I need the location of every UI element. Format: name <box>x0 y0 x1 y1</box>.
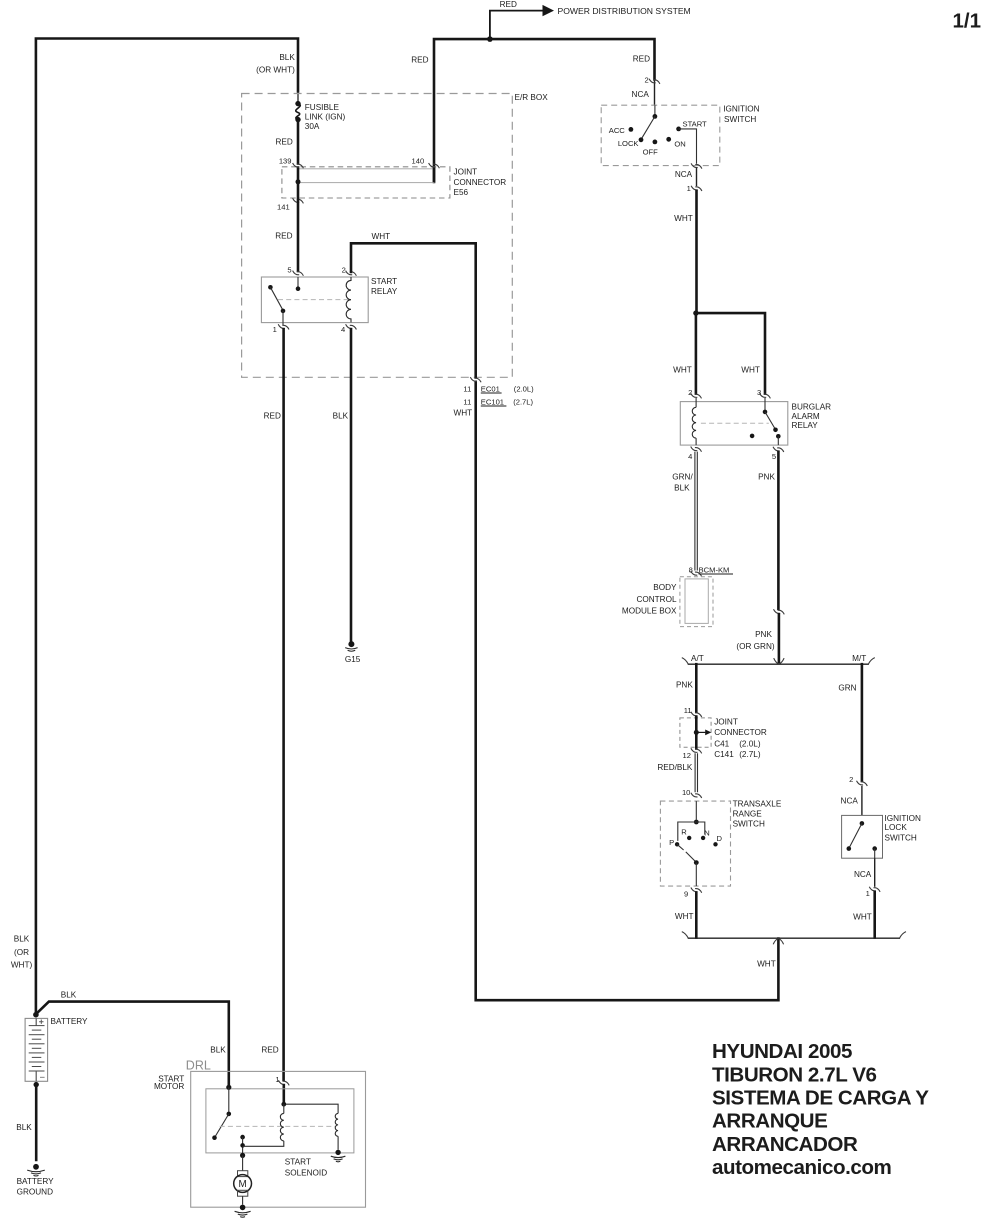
svg-text:RED: RED <box>264 412 281 421</box>
svg-text:FUSIBLE: FUSIBLE <box>305 103 340 112</box>
svg-text:MOTOR: MOTOR <box>154 1082 184 1091</box>
svg-text:5: 5 <box>287 266 291 275</box>
svg-text:JOINT: JOINT <box>714 717 738 726</box>
svg-text:1: 1 <box>273 325 277 334</box>
svg-text:NCA: NCA <box>632 90 650 99</box>
svg-text:D: D <box>716 834 722 843</box>
svg-text:MODULE BOX: MODULE BOX <box>622 606 677 615</box>
ignition lock switch <box>842 814 921 858</box>
svg-text:WHT: WHT <box>371 232 390 241</box>
svg-text:BATTERY: BATTERY <box>51 1017 89 1026</box>
svg-text:PNK: PNK <box>755 630 772 639</box>
bottom WHT junction line <box>682 932 906 945</box>
svg-text:A/T: A/T <box>691 654 704 663</box>
title text block <box>712 1040 929 1179</box>
svg-text:NCA: NCA <box>854 870 872 879</box>
wire RED start relay pin 1 down to start motor pin 1 <box>261 329 283 1080</box>
burglar relay pin 3 connector <box>757 388 770 399</box>
svg-text:RED: RED <box>633 55 650 64</box>
burglar alarm relay <box>680 402 831 446</box>
svg-text:E56: E56 <box>454 188 469 197</box>
burglar relay pin 2 connector <box>688 388 701 399</box>
svg-text:RED: RED <box>500 0 517 9</box>
svg-text:9: 9 <box>684 889 688 898</box>
svg-text:11: 11 <box>463 384 471 393</box>
svg-text:SWITCH: SWITCH <box>733 819 765 828</box>
start motor pin 1 connector (RED feed) <box>275 1075 289 1102</box>
svg-text:(OR GRN): (OR GRN) <box>736 642 774 651</box>
svg-text:(OR: (OR <box>14 948 29 957</box>
wire WHT start relay pin 2 across and down through EC01/EC101 to bottom junction <box>351 232 778 1000</box>
ignition lock switch pin 1 <box>853 858 880 937</box>
svg-text:140: 140 <box>412 156 425 165</box>
svg-text:SISTEMA DE CARGA Y: SISTEMA DE CARGA Y <box>712 1087 929 1110</box>
svg-text:M/T: M/T <box>852 654 866 663</box>
svg-text:SOLENOID: SOLENOID <box>285 1169 327 1178</box>
body control module box <box>622 577 713 627</box>
svg-text:HYUNDAI 2005: HYUNDAI 2005 <box>712 1040 852 1063</box>
svg-text:START: START <box>371 277 397 286</box>
transaxle range switch <box>660 800 781 887</box>
start relay coil <box>346 277 351 322</box>
battery <box>25 1012 88 1087</box>
svg-text:G15: G15 <box>345 655 361 664</box>
svg-text:PNK: PNK <box>758 472 775 481</box>
svg-text:CONNECTOR: CONNECTOR <box>714 728 767 737</box>
pin 141 connector <box>293 198 304 203</box>
start relay switch contacts <box>268 277 349 325</box>
svg-text:RED: RED <box>261 1045 278 1054</box>
svg-text:RED: RED <box>276 138 293 147</box>
svg-text:WHT: WHT <box>675 912 694 921</box>
svg-text:WHT: WHT <box>853 912 872 921</box>
svg-text:BLK: BLK <box>210 1045 226 1054</box>
transaxle range switch contacts P R N D <box>669 801 722 886</box>
svg-text:(2.7L): (2.7L) <box>739 750 761 759</box>
svg-text:EC101: EC101 <box>481 397 504 406</box>
svg-text:C141: C141 <box>714 750 734 759</box>
svg-text:P: P <box>669 838 674 847</box>
pin 5 connector <box>293 271 304 276</box>
burglar relay pin 5 connector <box>772 447 784 461</box>
svg-text:LINK (IGN): LINK (IGN) <box>305 113 346 122</box>
svg-text:WHT: WHT <box>673 366 692 375</box>
A/T M/T option split line <box>682 654 875 664</box>
node: WHT junction above burglar alarm relay <box>693 310 698 315</box>
svg-text:141: 141 <box>277 203 290 212</box>
svg-text:PNK: PNK <box>676 680 693 689</box>
start solenoid ground <box>331 1150 346 1162</box>
wire GRN M/T branch down to ignition lock switch pin 2 <box>838 664 862 780</box>
svg-text:RANGE: RANGE <box>733 809 763 818</box>
svg-text:CONTROL: CONTROL <box>636 595 676 604</box>
svg-text:BURGLAR: BURGLAR <box>792 403 832 412</box>
pin 140 connector <box>429 163 440 168</box>
svg-text:WHT: WHT <box>741 366 760 375</box>
svg-text:RELAY: RELAY <box>792 421 819 430</box>
svg-text:automecanico.com: automecanico.com <box>712 1156 891 1179</box>
svg-text:LOCK: LOCK <box>885 823 908 832</box>
transaxle range switch pin 9 <box>684 888 702 899</box>
svg-text:(OR WHT): (OR WHT) <box>256 66 295 75</box>
svg-text:EC01: EC01 <box>481 384 500 393</box>
wire RED from joint connector pin 140 up, across, down to ignition switch pin 2 <box>411 39 654 182</box>
svg-text:BLK: BLK <box>16 1123 32 1132</box>
battery ground <box>17 1164 55 1197</box>
svg-text:(2.0L): (2.0L) <box>739 739 761 748</box>
svg-text:139: 139 <box>279 156 292 165</box>
wire RED stub to power distribution arrow <box>490 0 543 39</box>
motor ground <box>235 1205 251 1218</box>
svg-text:ON: ON <box>674 140 685 149</box>
arrow to POWER DISTRIBUTION SYSTEM <box>543 5 691 16</box>
motor M <box>234 1155 252 1204</box>
svg-text:RED/BLK: RED/BLK <box>657 763 693 772</box>
svg-text:1/1: 1/1 <box>953 10 982 33</box>
svg-text:BLK: BLK <box>333 412 349 421</box>
svg-text:WHT: WHT <box>757 960 776 969</box>
svg-text:4: 4 <box>688 452 692 461</box>
svg-text:1: 1 <box>866 889 870 898</box>
svg-text:GRN/: GRN/ <box>672 472 693 481</box>
pin 4 connector <box>346 324 357 329</box>
svg-text:GRN: GRN <box>838 683 856 692</box>
start solenoid inner box <box>206 1089 354 1153</box>
wire BLK start relay pin 4 down to ground G15 <box>333 329 351 641</box>
svg-text:BODY: BODY <box>653 583 677 592</box>
wire RED pin 141 to start relay pin 5 <box>275 183 298 271</box>
svg-text:BLK: BLK <box>14 935 30 944</box>
svg-text:5: 5 <box>772 452 776 461</box>
svg-text:WHT: WHT <box>674 214 693 223</box>
transaxle range switch pin 10 <box>682 788 702 798</box>
wire PNK burglar relay pin 5 down <box>758 452 778 609</box>
svg-text:8: 8 <box>689 565 693 574</box>
node: junction dot feeding power distribution system <box>487 36 493 42</box>
svg-text:BATTERY: BATTERY <box>17 1177 55 1186</box>
ignition lock switch pin 2 <box>841 775 868 816</box>
svg-text:R: R <box>681 828 687 837</box>
svg-text:12: 12 <box>683 751 691 760</box>
ignition switch pin 2 connector and labels <box>632 76 660 99</box>
svg-text:TRANSAXLE: TRANSAXLE <box>733 800 782 809</box>
wire BLK battery negative to battery ground <box>16 1086 36 1160</box>
svg-text:POWER DISTRIBUTION SYSTEM: POWER DISTRIBUTION SYSTEM <box>558 6 691 16</box>
wire GRN/BLK burglar relay pin 4 to BCM pin 8 (double line) <box>672 452 697 571</box>
svg-text:1: 1 <box>687 184 691 193</box>
wire PNK (OR GRN) to A/T M/T split <box>778 614 781 663</box>
wire RED/BLK pin 12 to transaxle range switch pin 10 (double line) <box>657 753 697 792</box>
svg-text:ARRANCADOR: ARRANCADOR <box>712 1133 858 1156</box>
burglar alarm relay switch <box>701 398 781 445</box>
ignition switch dashed box <box>601 105 759 166</box>
wire WHT junction to burglar relay pin 3 <box>696 313 765 394</box>
svg-text:BCM-KM: BCM-KM <box>699 565 730 574</box>
connector EC01/EC101 pin 11 at E/R box edge <box>453 377 534 417</box>
joint connector C41/C141 pin 11 <box>684 706 702 717</box>
svg-text:RED: RED <box>275 232 292 241</box>
svg-text:CONNECTOR: CONNECTOR <box>454 178 507 187</box>
start motor switch <box>212 1085 335 1158</box>
svg-text:2: 2 <box>849 775 853 784</box>
svg-text:C41: C41 <box>714 739 729 748</box>
svg-text:ACC: ACC <box>609 126 626 135</box>
BCM pin 8 connector BCM-KM <box>689 565 733 576</box>
fusible link (IGN) 30A <box>295 101 345 131</box>
svg-text:10: 10 <box>682 788 690 797</box>
svg-text:30A: 30A <box>305 122 320 131</box>
svg-text:2: 2 <box>644 76 648 85</box>
start solenoid pull-in coil <box>243 1102 287 1147</box>
pin 2 connector <box>346 271 357 276</box>
svg-text:11: 11 <box>463 397 471 406</box>
svg-text:ALARM: ALARM <box>792 412 820 421</box>
svg-text:DRL: DRL <box>186 1058 211 1072</box>
svg-text:IGNITION: IGNITION <box>885 814 921 823</box>
wire WHT ignition switch pin 1 down to junction <box>674 191 696 313</box>
svg-text:LOCK: LOCK <box>618 139 639 148</box>
svg-text:M: M <box>239 1179 247 1190</box>
svg-text:JOINT: JOINT <box>454 168 478 177</box>
svg-text:NCA: NCA <box>841 797 859 806</box>
svg-text:SWITCH: SWITCH <box>724 115 756 124</box>
svg-text:RELAY: RELAY <box>371 287 398 296</box>
svg-text:(2.7L): (2.7L) <box>513 397 533 406</box>
svg-text:RED: RED <box>411 55 428 64</box>
svg-text:E/R BOX: E/R BOX <box>515 93 549 102</box>
wire PNK A/T branch down to joint connector pin 11 <box>676 664 696 712</box>
svg-text:BLK: BLK <box>674 483 690 492</box>
svg-text:BLK: BLK <box>279 53 295 62</box>
svg-text:START: START <box>683 120 708 129</box>
svg-text:N: N <box>704 829 709 838</box>
wire BLK battery positive branch to start motor <box>36 991 229 1085</box>
joint connector C41 (2.0L) C141 (2.7L) <box>680 717 767 759</box>
svg-text:ARRANQUE: ARRANQUE <box>712 1110 827 1133</box>
svg-text:NCA: NCA <box>675 170 693 179</box>
E/R BOX dashed boundary <box>242 93 549 377</box>
ignition switch contacts ACC LOCK OFF ON START <box>609 105 707 156</box>
svg-text:BLK: BLK <box>61 991 77 1000</box>
start relay <box>261 266 397 334</box>
start solenoid hold coil <box>285 1104 338 1178</box>
svg-text:11: 11 <box>684 706 692 715</box>
wire WHT junction to burglar relay pin 2 <box>673 313 696 394</box>
svg-text:1: 1 <box>275 1075 279 1084</box>
svg-text:START: START <box>285 1158 311 1167</box>
svg-text:WHT: WHT <box>453 408 472 417</box>
joint connector E56 <box>277 156 506 211</box>
svg-text:OFF: OFF <box>643 148 659 157</box>
svg-text:(2.0L): (2.0L) <box>514 384 534 393</box>
burglar alarm relay coil <box>692 398 696 445</box>
ground G15 <box>345 641 361 664</box>
wire from START contact out of ignition switch <box>675 129 702 193</box>
joint connector pin 12 <box>683 748 702 760</box>
svg-text:GROUND: GROUND <box>17 1188 53 1197</box>
svg-text:IGNITION: IGNITION <box>723 105 759 114</box>
svg-text:SWITCH: SWITCH <box>885 833 917 842</box>
wire BLK (OR WHT) battery positive up and across to fusible link <box>11 39 298 1014</box>
svg-text:4: 4 <box>341 325 345 334</box>
burglar relay pin 4 connector <box>688 447 701 461</box>
start motor box DRL <box>154 1058 366 1207</box>
svg-text:TIBURON 2.7L V6: TIBURON 2.7L V6 <box>712 1063 877 1086</box>
pin 139 connector <box>293 163 304 168</box>
inline connector on PNK wire <box>736 609 784 651</box>
svg-text:2: 2 <box>342 266 346 275</box>
ignition lock switch contacts <box>847 821 878 858</box>
svg-text:WHT): WHT) <box>11 961 33 970</box>
wire WHT pin 9 to bottom junction <box>675 893 696 938</box>
pin 1 connector <box>278 324 289 329</box>
wire RED fusible link to pin 139 <box>276 120 298 164</box>
